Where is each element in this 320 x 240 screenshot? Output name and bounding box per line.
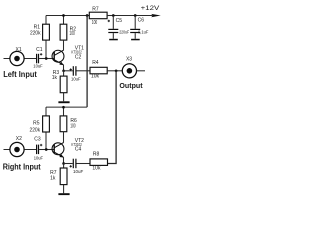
- svg-text:10uF: 10uF: [71, 77, 81, 83]
- resistor R6 100: [60, 107, 77, 132]
- ground under R3: [58, 101, 69, 103]
- node R6 rail junction: [62, 106, 65, 109]
- resistor R1: [30, 16, 49, 59]
- wire supply branch vertical: [86, 16, 88, 108]
- resistor R7 100: [89, 6, 113, 26]
- label Output: [119, 81, 143, 90]
- resistor R2: [60, 16, 76, 41]
- resistor R7 1k: [50, 164, 67, 194]
- capacitor C4 10uF: [70, 147, 84, 176]
- ground under C5: [109, 39, 118, 41]
- svg-text:220uF: 220uF: [119, 30, 129, 36]
- wire VT1 emitter: [63, 65, 65, 71]
- wire emitter to C2: [64, 70, 73, 72]
- wire bottom supply rail: [46, 106, 87, 108]
- node C5 rail junction: [112, 14, 115, 17]
- svg-text:C6: C6: [138, 18, 145, 24]
- capacitor C6 0,1uF: [130, 16, 148, 39]
- node output junction: [115, 69, 118, 72]
- transistor VT2 KT3102: [52, 138, 84, 158]
- svg-text:C1: C1: [36, 47, 43, 53]
- wire R4 to X3: [107, 70, 122, 72]
- svg-text:+12V: +12V: [141, 5, 160, 12]
- node supply branch junction: [86, 14, 89, 17]
- svg-text:Output: Output: [119, 81, 143, 90]
- svg-text:10k: 10k: [92, 165, 101, 171]
- wire VT1 collector: [63, 40, 65, 50]
- wire C4 to R8: [77, 163, 91, 165]
- svg-text:100: 100: [70, 123, 76, 129]
- resistor R3 1k: [52, 70, 67, 101]
- wire C3 to VT2 base: [39, 149, 54, 151]
- power +12V arrow: [141, 5, 161, 17]
- wire VT2 emitter: [63, 157, 65, 163]
- input jack X1: [4, 47, 37, 66]
- svg-text:R7: R7: [92, 6, 99, 12]
- svg-text:X3: X3: [126, 56, 132, 62]
- label Right Input: [3, 163, 41, 172]
- svg-text:R8: R8: [93, 151, 100, 157]
- svg-text:C2: C2: [75, 55, 82, 61]
- svg-text:1k: 1k: [52, 75, 58, 81]
- node C6 rail junction: [134, 14, 137, 17]
- svg-text:10uF: 10uF: [34, 155, 43, 161]
- svg-text:C5: C5: [116, 18, 123, 24]
- svg-text:10k: 10k: [91, 73, 100, 79]
- capacitor C2 10uF: [70, 55, 82, 83]
- input jack X2: [4, 136, 37, 156]
- output jack X3: [122, 56, 145, 78]
- capacitor C5 220uF: [108, 16, 130, 39]
- svg-text:10uF: 10uF: [73, 169, 83, 175]
- wire emitter to C4: [64, 163, 73, 165]
- svg-text:R1: R1: [34, 25, 41, 31]
- wire VT2 collector: [63, 132, 65, 143]
- svg-text:Right Input: Right Input: [3, 163, 41, 172]
- resistor R5 220k: [30, 107, 50, 149]
- svg-text:100: 100: [92, 20, 98, 26]
- svg-text:0,1uF: 0,1uF: [138, 29, 148, 35]
- wire mixing vertical R8 to output: [108, 71, 117, 164]
- svg-text:C4: C4: [75, 147, 82, 153]
- svg-text:Left Input: Left Input: [3, 70, 37, 79]
- node R1 base junction: [45, 57, 48, 60]
- resistor R4 10k: [90, 60, 107, 79]
- svg-text:C3: C3: [34, 136, 41, 142]
- wire +12V top supply rail: [46, 15, 153, 17]
- capacitor C3 10uF: [34, 136, 43, 161]
- wire C2 to R4: [77, 70, 91, 72]
- node R2 top rail junction: [62, 14, 65, 17]
- svg-text:10uF: 10uF: [33, 63, 42, 69]
- transistor VT1 KT3102: [52, 46, 84, 66]
- svg-text:100: 100: [69, 31, 75, 37]
- wire C1 to VT1 base: [39, 58, 54, 60]
- svg-text:X2: X2: [16, 136, 22, 142]
- svg-text:R4: R4: [92, 60, 99, 66]
- ground under C6: [131, 39, 140, 41]
- resistor R8 10k: [90, 151, 108, 171]
- svg-text:X1: X1: [16, 47, 22, 53]
- node VT2 emitter junction: [62, 162, 65, 165]
- node R5 base junction: [45, 148, 48, 151]
- node VT1 emitter junction: [62, 69, 65, 72]
- svg-text:220k: 220k: [30, 31, 41, 37]
- ground under R7: [58, 193, 69, 195]
- capacitor C1 10uF: [33, 47, 42, 70]
- svg-text:220k: 220k: [30, 128, 41, 134]
- svg-text:R5: R5: [33, 121, 40, 127]
- svg-text:1k: 1k: [50, 175, 56, 181]
- label Left Input: [3, 70, 37, 79]
